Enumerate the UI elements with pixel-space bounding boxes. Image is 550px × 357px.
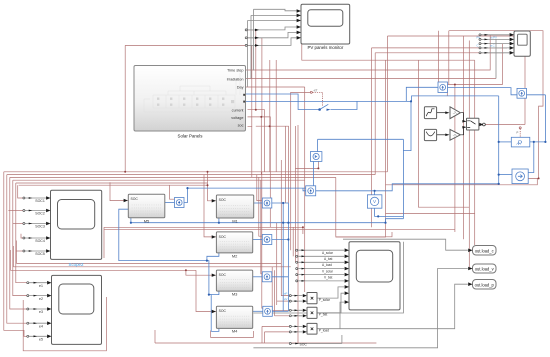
wire red v295 down <box>294 126 296 262</box>
wire blue v x499 <box>498 96 500 184</box>
blue tiny labels bottom-left feeds <box>284 292 288 302</box>
wire bundle h4 <box>13 179 305 181</box>
svg-text:SOC1: SOC1 <box>35 199 45 203</box>
wire blue M4 bottom <box>211 329 219 332</box>
controlled source block bottom-right <box>512 169 528 184</box>
wire blue M3 bottom <box>209 291 219 294</box>
current sensor far-right <box>517 88 527 98</box>
svg-text:SOC: SOC <box>219 198 227 202</box>
wire gray out.load_c feed <box>343 239 468 250</box>
wire monitor in4 feed <box>247 30 256 110</box>
svg-text:Time step: Time step <box>227 69 244 73</box>
wire red stub P_solar b <box>277 300 290 302</box>
svg-text:Solar Panels: Solar Panels <box>178 134 204 139</box>
arrowheads into M blocks <box>124 199 216 313</box>
svg-text:PV: PV <box>477 36 481 40</box>
wire blue sensorTR to far sensor <box>448 88 517 95</box>
svg-text:e4: e4 <box>39 324 43 328</box>
wire red v x304.7 <box>304 87 306 292</box>
wire red v x115.5 into M5 <box>110 182 128 200</box>
wire red v x269.8 <box>269 60 271 172</box>
wire blue far sensor out <box>527 94 546 96</box>
wire blue circle-play feed <box>318 138 404 140</box>
wire red v x463.6 <box>463 36 465 239</box>
wire bundle2 h1 <box>16 241 281 264</box>
wire blue M3 to sensor <box>253 276 262 278</box>
svg-text:Scope2: Scope2 <box>69 262 84 267</box>
wire red stub P_load b <box>265 332 290 343</box>
product P_bat <box>303 307 328 318</box>
switch control circle <box>310 91 312 93</box>
svg-text:e3: e3 <box>39 310 43 314</box>
wire red h y227.3 <box>104 227 303 258</box>
svg-text:M2: M2 <box>232 253 238 258</box>
wire gray monitor in2 <box>251 15 297 78</box>
scope PV panels monitor <box>297 4 350 50</box>
svg-text:w.C: w.C <box>490 43 495 47</box>
svg-text:P_load: P_load <box>319 329 329 333</box>
wire gray out.load_p feed <box>317 284 468 329</box>
wire gray scope right v <box>253 242 403 313</box>
wire gray scope TR in5 <box>481 52 510 54</box>
wire blue mid sensor out <box>316 184 499 191</box>
wire blue M2 to sensor <box>253 239 262 241</box>
wire red source play out <box>295 161 318 168</box>
svg-text:SOC4: SOC4 <box>35 239 45 243</box>
wire red v x474.7 <box>474 60 476 245</box>
wire blue switch contact <box>320 104 329 109</box>
svg-text:SOC: SOC <box>300 343 308 347</box>
svg-text:SOC: SOC <box>131 197 139 201</box>
svg-text:aP: aP <box>284 292 288 296</box>
wire bundle2 h3 <box>10 250 196 270</box>
wire red stub P_bat a <box>272 267 289 311</box>
wire top right h y36 <box>388 36 526 172</box>
svg-text:C: C <box>477 43 479 47</box>
wire gray P_bat to scope <box>317 293 344 313</box>
wire gray scope TR in2 <box>480 39 509 78</box>
scope Scope2 <box>35 190 101 267</box>
mid arrows scope feeds <box>302 249 306 281</box>
product P_load <box>303 323 329 334</box>
mid arrows monitor <box>255 29 259 47</box>
PS gain P block <box>511 137 530 147</box>
current sensor M5 <box>175 198 185 208</box>
svg-text:-?-: -?- <box>453 133 457 137</box>
node scope TR origins <box>479 34 481 36</box>
wire red M4 bottom loop <box>211 331 254 338</box>
wire red h y236.8 top of scope <box>336 232 392 237</box>
current sensor M2 <box>262 235 272 245</box>
switch block <box>467 118 486 130</box>
signal source 1 <box>424 107 436 119</box>
svg-text:PV panels monitor: PV panels monitor <box>307 45 343 50</box>
wire blue switch output <box>331 101 358 109</box>
wire gray scope TR in4 <box>481 47 510 49</box>
wire gray SOC bottom line <box>291 335 342 344</box>
scope errors (e1-e5) <box>39 275 101 344</box>
subsystem M2 <box>216 232 252 258</box>
wire red bottom left loop <box>23 297 106 351</box>
node scope feed origins <box>296 249 298 251</box>
wire into M3 <box>186 270 216 275</box>
wire to SOC4 <box>21 234 23 238</box>
wire sensorTR red out <box>448 44 503 232</box>
svg-text:-XT: -XT <box>313 89 318 93</box>
wire blue x403 jog to long <box>386 219 404 223</box>
wire gray monitor in5 jog <box>247 32 297 37</box>
wire to SOC3 <box>13 223 23 225</box>
svg-text:A_load: A_load <box>322 263 332 267</box>
wire gray scope TR in1 <box>480 34 509 36</box>
svg-text:out.load_v: out.load_v <box>475 267 495 272</box>
wire blue M1 to sensor <box>254 202 262 204</box>
wire red v x204 into M2 <box>204 175 216 237</box>
subsystem M5 <box>128 194 165 223</box>
wire monitor in5 feed <box>247 38 262 117</box>
wire red v x293.2 <box>292 227 294 256</box>
wire gray scope feeds h <box>298 250 345 281</box>
current sensor M4 <box>263 306 273 316</box>
svg-text:e5: e5 <box>39 338 43 342</box>
scope top-right <box>510 31 531 56</box>
WIRES-BLUE <box>119 87 546 331</box>
wire blue sensor M1 out <box>272 202 288 204</box>
subsystem M4 <box>216 306 252 333</box>
mid arrows SOC <box>29 197 33 252</box>
wire blue sensor M5 out <box>184 188 187 202</box>
wire blue solar port2 long <box>246 100 411 102</box>
wire left loop to e1 <box>16 183 27 283</box>
current sensor top-right <box>438 82 448 93</box>
node monitor origins <box>245 29 247 31</box>
wire red switch circle out right <box>520 124 525 126</box>
svg-text:A_bat: A_bat <box>324 257 332 261</box>
wire blue branch x406.3 up to sensorTR <box>406 87 438 101</box>
P control circle <box>519 127 521 129</box>
wire solar current out <box>248 110 265 172</box>
current sensor M1 <box>262 198 272 208</box>
subsystem Solar Panels <box>134 66 246 139</box>
current sensor mid <box>306 186 316 196</box>
svg-text:P_solar: P_solar <box>319 298 331 302</box>
wire red h y232 <box>104 228 455 230</box>
source block mid (circle arrow) <box>310 152 322 162</box>
wire red v298 down <box>297 125 299 344</box>
svg-text:out.load_p: out.load_p <box>475 282 495 287</box>
wire blue bus v288 <box>287 203 289 311</box>
wire red switch control feed <box>291 92 311 250</box>
svg-text:w.PV: w.PV <box>491 36 498 40</box>
wire red v x276.2 <box>275 60 277 172</box>
wire red monitor drop <box>302 44 475 60</box>
gain 1 <box>450 107 460 119</box>
svg-text:V_bat: V_bat <box>324 276 332 280</box>
wire scope TR in4 feed <box>372 48 508 227</box>
voltage sensor <box>367 195 382 208</box>
wire red sensor M2 measurement <box>259 177 263 236</box>
wire gray monitor in4 jog <box>247 27 297 30</box>
wire blue M5 conserving port <box>119 209 207 260</box>
wire left loop to e4 <box>7 175 27 324</box>
wire bundle2 h2 <box>13 246 290 267</box>
outport out.load_p <box>468 280 496 290</box>
wire switch circle to right column <box>485 124 520 126</box>
wire blue P input <box>499 141 511 143</box>
wire gray scope TR in3 <box>481 43 510 45</box>
wire blue branch y95.9 right <box>412 96 499 102</box>
wire into M4 <box>196 270 216 311</box>
svg-text:Day: Day <box>237 86 244 90</box>
current sensor M3 <box>262 272 272 282</box>
mid arrows scope TR <box>485 34 489 54</box>
svg-text:V_solar: V_solar <box>322 270 334 274</box>
svg-text:SOC3: SOC3 <box>35 225 45 229</box>
wire solar soc out <box>248 127 252 178</box>
wire gray monitor in1 <box>254 9 297 70</box>
node SOC line origin <box>289 343 291 345</box>
wire blue upper long y188.1 <box>188 187 306 189</box>
wire top right h y30.7 <box>449 31 543 179</box>
svg-text:Irradiation: Irradiation <box>227 78 244 82</box>
wire red v x438.4 <box>437 31 439 82</box>
wire blue bus v283 <box>282 203 284 311</box>
svg-text:SOC: SOC <box>219 273 227 277</box>
blue tiny labels near TR scope <box>477 36 498 48</box>
wire blue circle-play in <box>317 139 319 151</box>
wire gray monitor in3 <box>248 21 297 88</box>
wire gray P_solar to scope <box>317 287 344 298</box>
wire red vsensor measurement <box>386 178 538 184</box>
wire red P dashed control <box>519 129 521 138</box>
svg-text:e1: e1 <box>39 284 43 288</box>
wire red switch dashed control <box>313 92 323 106</box>
wire blue sensor M3 out <box>272 276 288 278</box>
svg-text:aV: aV <box>284 297 288 301</box>
wire blue source input <box>499 174 514 176</box>
svg-text:e2: e2 <box>39 297 43 301</box>
wire to SOC2 <box>8 210 23 212</box>
node product feed origins <box>289 295 291 297</box>
wire blue M1 bottom <box>218 218 220 223</box>
wire blue mid sensor in jog <box>303 188 306 191</box>
wire solar irradiation long <box>246 78 496 80</box>
wire red sensor M4 measurement <box>262 172 264 308</box>
svg-text:A_solar: A_solar <box>322 251 334 255</box>
wire blue bus step1 <box>207 261 209 295</box>
wire blue vsensor bottom <box>375 208 404 216</box>
wire blue bus step2 <box>209 295 211 332</box>
wire to SOC5 <box>16 250 23 252</box>
wire blue v x403.4 <box>402 139 404 218</box>
mid arrows product feeds <box>295 295 299 333</box>
wire bundle h5 <box>16 182 208 184</box>
signal source 2 <box>424 129 436 140</box>
svg-text:M3: M3 <box>232 292 238 297</box>
wire blue long mid y222.8 <box>131 222 386 224</box>
node e1-5 origins <box>27 282 29 284</box>
wire scope TR in5 feed <box>375 53 504 175</box>
wire monitor in6 feed <box>247 45 252 126</box>
svg-text:SOC5: SOC5 <box>35 252 45 256</box>
wire red h y126.2 <box>256 126 289 203</box>
wire solar voltage out <box>248 117 271 227</box>
scope load monitor (bottom) <box>322 242 400 310</box>
svg-text:M5: M5 <box>144 218 150 223</box>
gain 2 <box>450 129 460 140</box>
wire red sensor M5 measurement <box>170 185 175 199</box>
wire left loop to e3 <box>10 177 27 309</box>
wire red v x385.5 <box>336 60 386 237</box>
svg-text:-?-: -?- <box>453 111 457 115</box>
wire blue sensor M2 out <box>272 239 288 241</box>
subsystem M3 <box>216 270 252 296</box>
mid arrows e <box>34 282 38 337</box>
wire blue vsensor top feed <box>374 191 376 195</box>
wire bundle h2 <box>7 174 375 176</box>
wire blue source right up <box>528 142 534 173</box>
wire red v x418.4 <box>418 60 469 207</box>
wire gray P_load to scope jog <box>340 302 344 329</box>
switch arrow <box>327 109 331 111</box>
wire red v x469.3 <box>468 41 470 269</box>
wire blue P output loop <box>530 95 545 142</box>
wire red h y213.6 <box>386 213 475 215</box>
wire left loop to e5 <box>4 172 27 336</box>
wire black source1 to gain1 <box>437 113 483 135</box>
wire red v x207.5 into M1 <box>208 172 216 201</box>
svg-text:M4: M4 <box>232 329 238 334</box>
svg-text:voltage: voltage <box>231 116 243 120</box>
wire bundle h1 <box>4 171 388 173</box>
wire solar timestep long <box>246 35 491 70</box>
svg-text:SOC: SOC <box>219 235 227 239</box>
svg-text:SOC: SOC <box>219 309 227 313</box>
svg-text:out.load_c: out.load_c <box>475 248 494 253</box>
svg-text:P_bat: P_bat <box>319 313 328 317</box>
wire blue x411 down <box>403 101 411 150</box>
wire red v x276.7 <box>276 223 278 305</box>
wire red sensor M3 measurement <box>261 180 263 274</box>
wire gray product feeds <box>291 296 302 332</box>
product P_solar <box>303 293 331 304</box>
svg-text:P: P <box>517 131 519 135</box>
wire red stub P_bat b <box>275 270 290 316</box>
wire red v x281 <box>281 160 289 296</box>
outport out.load_v <box>468 264 496 273</box>
subsystem M1 <box>216 195 253 224</box>
wire gray monitor in6 jog <box>247 38 297 46</box>
wire blue M5 to sensor <box>165 202 174 204</box>
wire gray out.load_v feed <box>253 269 467 348</box>
wire red solar day long <box>246 86 305 88</box>
wire blue M4 to sensor <box>253 310 263 312</box>
wire red sensor M1 measurement <box>257 175 263 201</box>
wire gray e1-5 lines <box>29 283 47 337</box>
svg-text:M1: M1 <box>232 219 238 224</box>
mid arrow SOC bottom <box>295 343 299 345</box>
wire red v x447.3 <box>446 85 448 97</box>
outport out.load_c <box>468 246 496 256</box>
wire blue solar port1 to switch <box>246 94 320 110</box>
wire gray SOC1-5 lines <box>25 198 46 251</box>
wire blue M2 bottom <box>207 253 219 261</box>
wire left short loop to SOC1 <box>18 185 23 198</box>
wire blue circle-play out down <box>313 162 315 186</box>
wire bundle h6 <box>19 184 208 186</box>
wire vertical x125 top loop <box>125 45 245 171</box>
wire red stub P_load a <box>262 326 290 343</box>
wire left loop to e2 <box>13 180 27 295</box>
node SOC1-5 origins <box>23 197 25 199</box>
wire bundle h3 <box>10 177 336 236</box>
wire red bottom long <box>155 330 376 343</box>
svg-text:SOC2: SOC2 <box>35 212 45 216</box>
svg-text:current: current <box>232 108 245 112</box>
wire blue sensor M4 out <box>273 310 289 312</box>
wire blue M5 bottom <box>130 218 132 223</box>
svg-text:soc: soc <box>238 123 244 127</box>
